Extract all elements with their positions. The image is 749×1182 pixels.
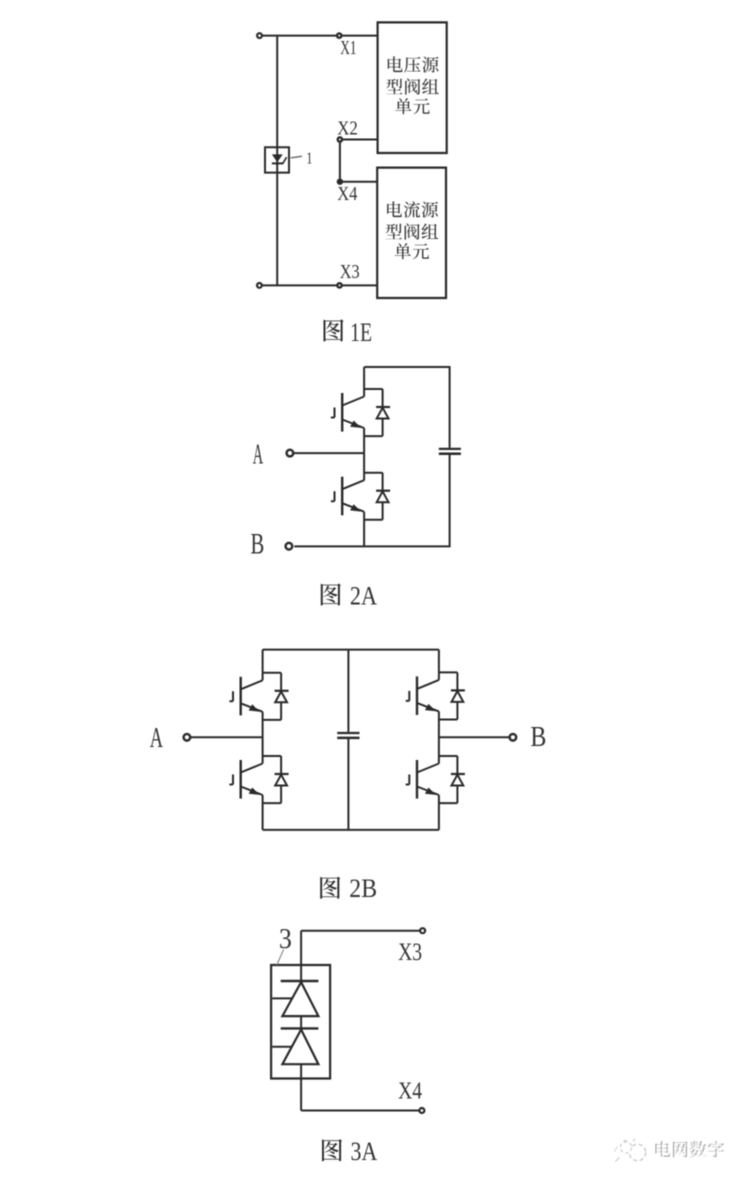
wire: bottom bus from left terminal to current-source box [259, 284, 377, 286]
IGBT Q3 [229, 677, 262, 716]
IGBT Q5 [406, 676, 439, 715]
svg-text:X3: X3 [398, 939, 422, 966]
wire: top bus from left terminal to voltage-source box [260, 35, 378, 37]
node X3 terminal circle [337, 283, 341, 287]
box: current source type valve group unit [377, 168, 446, 298]
wire: terminal A lead [190, 736, 262, 738]
thyristor V2 (lower) [272, 1028, 318, 1064]
wire: bottom lead to X4 [301, 1110, 419, 1112]
leader dash to label 1 [291, 156, 302, 158]
label X4 [337, 183, 357, 205]
box: voltage source type valve group unit [378, 22, 447, 153]
terminal: top-left open circle [257, 33, 262, 38]
wire: phase lead from terminal A [293, 452, 364, 454]
Q6 IGBT collector/emitter connection frame [439, 756, 458, 803]
svg-text:X4: X4 [398, 1079, 422, 1105]
watermark logo (light sketch) [615, 1139, 646, 1161]
title 图 2B [320, 873, 377, 903]
label B [251, 527, 265, 560]
svg-text:X2: X2 [337, 117, 358, 139]
wire: left vertical branch through component 1 [276, 36, 278, 286]
Q2 IGBT collector/emitter connection frame [364, 473, 383, 520]
node X1 terminal circle [337, 33, 341, 37]
wire: collector lead upper IGBT [363, 367, 365, 397]
svg-text:X3: X3 [340, 261, 360, 283]
terminal B circle [286, 543, 293, 550]
Q1 IGBT collector/emitter connection frame [364, 389, 383, 436]
svg-text:1: 1 [306, 148, 312, 167]
wire: right collector lead [438, 650, 440, 680]
title 图 3A [322, 1136, 378, 1166]
terminal X4 circle [419, 1108, 424, 1113]
terminal A circle [287, 450, 294, 457]
wire: right emitter lead [438, 795, 440, 830]
IGBT Q1 [331, 393, 364, 432]
svg-text:1E: 1E [350, 318, 372, 347]
wire: X2 to voltage-source box [342, 139, 377, 141]
label 1 (component reference) [306, 148, 312, 167]
label X4 [398, 1079, 422, 1105]
wire: left midpoint lead through node A [262, 712, 264, 764]
svg-text:B: B [530, 721, 546, 753]
svg-text:X1: X1 [340, 37, 356, 59]
label A [150, 722, 163, 754]
Q5 IGBT collector/emitter connection frame [439, 672, 458, 719]
terminal X3 circle [420, 928, 425, 933]
wire: vertical into module [300, 931, 302, 981]
svg-text:3A: 3A [351, 1136, 378, 1166]
svg-text:2A: 2A [350, 580, 378, 610]
wire: bottom rail from B to capacitor branch [294, 455, 449, 547]
title 图 2A [321, 580, 378, 610]
wire: capacitor branch upper [347, 650, 349, 732]
label B [530, 721, 546, 753]
capacitor C2 [337, 733, 359, 738]
label 电压源型阀组单元 (voltage source type valve group unit) [386, 56, 439, 114]
antiparallel diode D5 [451, 672, 465, 719]
wire: left emitter lead [262, 795, 264, 830]
wire: top rail to capacitor branch [364, 367, 450, 448]
label X2 [337, 117, 358, 139]
IGBT Q6 [406, 760, 439, 799]
wire: X2 down to X4 [339, 142, 341, 182]
Q4 IGBT collector/emitter connection frame [263, 756, 282, 803]
IGBT Q4 [229, 760, 262, 799]
wire: X4 to current-source box [340, 181, 377, 183]
wire: bottom rail [263, 829, 439, 831]
component 1: protective thyristor in square box [265, 147, 289, 172]
wire: terminal B lead [439, 736, 510, 738]
wire: right midpoint lead through node B [438, 711, 440, 763]
junction dot X4 [337, 179, 343, 185]
Q3 IGBT collector/emitter connection frame [263, 673, 282, 720]
watermark text 电网数字 [655, 1141, 725, 1159]
terminal B circle [510, 734, 517, 741]
label X3 [340, 261, 360, 283]
wire: left collector lead [262, 650, 264, 681]
wire: midpoint lead (emitter Q1 to collector Q2) through node A [363, 428, 365, 480]
antiparallel diode D2 [376, 473, 390, 520]
thyristor V1 (upper) [272, 981, 318, 1016]
wire: between thyristors [300, 1016, 302, 1028]
label X3 [398, 939, 422, 966]
node X2 terminal circle [338, 137, 342, 141]
svg-text:B: B [251, 527, 265, 560]
svg-text:A: A [253, 439, 263, 471]
box: thyristor module 3 [271, 965, 330, 1079]
antiparallel diode D1 [376, 389, 390, 436]
IGBT Q2 [331, 477, 364, 516]
antiparallel diode D4 [275, 756, 289, 803]
wire: emitter lead lower IGBT to bottom rail [363, 512, 365, 547]
label X1 [340, 37, 356, 59]
label A [253, 439, 263, 471]
wire: capacitor branch lower [347, 739, 349, 830]
wire: top lead to X3 [301, 930, 420, 932]
antiparallel diode D3 [275, 673, 289, 720]
wire: top rail [263, 649, 439, 651]
wire: module bottom lead [300, 1064, 302, 1110]
svg-text:3: 3 [279, 923, 292, 955]
svg-text:A: A [150, 722, 163, 754]
svg-text:2B: 2B [349, 873, 377, 903]
label 电流源型阀组单元 (current source type valve group unit) [386, 201, 439, 259]
svg-text:X4: X4 [337, 183, 357, 205]
title 图 1E [323, 318, 372, 347]
antiparallel diode D6 [451, 756, 465, 803]
label 3 (module reference) [279, 923, 292, 955]
leader line from 3 to box [277, 950, 284, 965]
capacitor C1 [439, 449, 461, 454]
terminal: bottom-left open circle [257, 283, 262, 288]
terminal A circle [184, 734, 191, 741]
